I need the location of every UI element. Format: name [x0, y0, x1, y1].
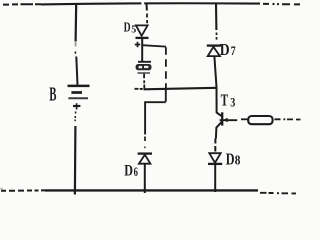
svg-text:8: 8 [235, 152, 241, 167]
svg-text:3: 3 [230, 95, 235, 110]
svg-text:T: T [221, 90, 229, 109]
svg-text:D: D [124, 161, 133, 180]
svg-text:D: D [124, 20, 131, 35]
svg-text:5: 5 [131, 23, 136, 35]
svg-text:6: 6 [134, 164, 139, 179]
svg-text:D: D [226, 149, 235, 168]
svg-text:7: 7 [231, 44, 236, 58]
svg-text:B: B [49, 84, 56, 105]
svg-text:D: D [220, 40, 230, 59]
